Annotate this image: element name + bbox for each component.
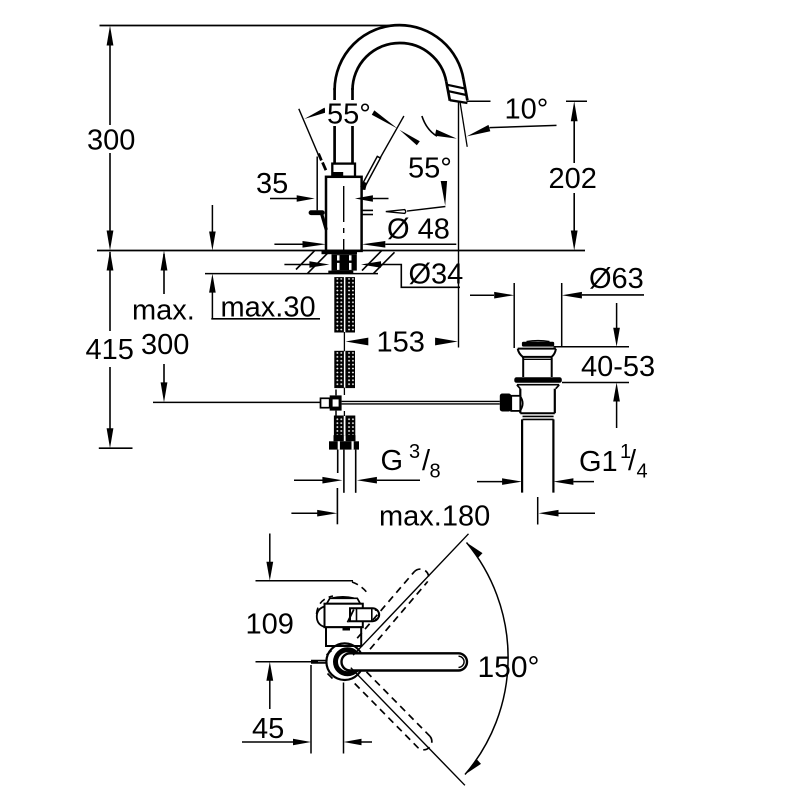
dimension 45 <box>242 665 372 754</box>
svg-text:55°: 55° <box>408 153 452 185</box>
svg-text:Ø34: Ø34 <box>409 259 464 291</box>
spout stream vertical reference line <box>458 102 460 348</box>
body centre line <box>343 186 345 250</box>
drain body <box>519 389 521 414</box>
dimension Ø63 <box>470 263 644 299</box>
svg-text:45: 45 <box>252 713 284 745</box>
threaded shank middle band <box>335 351 355 387</box>
drain flange <box>514 377 562 383</box>
drain tailpipe <box>521 419 523 492</box>
55deg arc arrow left <box>304 108 326 119</box>
svg-text:150°: 150° <box>478 651 540 684</box>
counter underside line <box>205 273 378 275</box>
drain plug dome <box>518 349 556 358</box>
drain Ø63 extension lines <box>513 283 515 348</box>
drain centre line <box>537 497 539 525</box>
svg-text:415: 415 <box>86 334 134 366</box>
svg-text:3: 3 <box>409 441 420 463</box>
svg-text:8: 8 <box>430 461 441 483</box>
pull-rod horizontal line / max300 tick <box>153 401 330 403</box>
supply nut <box>329 441 359 449</box>
dimension 109 <box>246 534 294 710</box>
rod clamp stubs <box>335 390 337 417</box>
drain plug knob <box>527 341 550 342</box>
svg-text:4: 4 <box>637 461 648 483</box>
rod clamp fitting <box>321 398 330 407</box>
handle lever tilted <box>361 156 380 188</box>
top view: cartridge cap chamfer <box>327 598 361 603</box>
threaded shank upper band <box>335 278 355 332</box>
collar dark insert <box>333 172 343 177</box>
top view: spout tip reference line <box>256 580 354 582</box>
dimension 40-53 <box>554 303 656 428</box>
svg-text:300: 300 <box>87 125 135 157</box>
spout outer arc <box>335 25 464 90</box>
top view: dashed spout position upper <box>357 569 428 649</box>
pull rod to drain (double line) <box>342 400 500 402</box>
dimension 300 (height above counter) <box>87 26 135 251</box>
top view: dashed handle position lower <box>355 672 432 750</box>
svg-text:40-53: 40-53 <box>581 351 655 383</box>
outlet end edge <box>450 100 468 103</box>
dimension 10deg <box>467 94 557 137</box>
svg-text:max.: max. <box>132 295 195 327</box>
body collar <box>332 164 355 177</box>
dimension max.300 <box>132 251 195 403</box>
faucet body <box>326 177 362 251</box>
outlet aerator lines <box>447 85 465 89</box>
pop-up rod knob <box>311 210 322 215</box>
body side port lines <box>363 209 374 211</box>
dimension Ø48 <box>274 214 456 248</box>
counter hatch left <box>296 251 315 270</box>
svg-text:10°: 10° <box>505 94 549 126</box>
top view: swivel outer circle <box>326 643 363 680</box>
handle hidden dashes left <box>319 154 322 161</box>
spout riser tube sides <box>333 88 336 165</box>
handle position left line <box>299 109 319 156</box>
mounting nut <box>328 271 353 274</box>
svg-text:Ø 48: Ø 48 <box>387 214 450 246</box>
top view: cartridge cap body <box>325 604 363 628</box>
top view: hidden spout dashed arc <box>317 596 334 614</box>
svg-text:G: G <box>381 445 404 477</box>
leader line to outlet port <box>407 207 445 212</box>
handle position right line <box>362 116 404 190</box>
top reference line <box>100 25 399 27</box>
threaded shank lower band <box>334 416 354 435</box>
dimension 150deg arc <box>465 543 508 775</box>
shank end collar <box>334 435 356 441</box>
rod gap centre line <box>343 388 345 416</box>
tailpiece tube <box>343 450 345 493</box>
svg-text:300: 300 <box>141 329 189 361</box>
drain side port <box>500 394 511 412</box>
dimension G1 1/4 <box>477 441 648 485</box>
svg-text:35: 35 <box>256 168 288 200</box>
top view: diverter cylinder <box>350 608 379 621</box>
dimension max.180 <box>291 501 595 533</box>
drain plug neck <box>522 358 524 377</box>
svg-text:202: 202 <box>549 163 597 195</box>
top view: lever capsule <box>342 653 468 670</box>
dimension max.30 <box>209 205 320 324</box>
tailpiece outer stub <box>337 450 339 473</box>
dimension 202 <box>467 101 597 250</box>
spout outlet tube <box>464 80 468 100</box>
svg-text:Ø63: Ø63 <box>589 263 644 295</box>
svg-text:G1: G1 <box>579 446 618 478</box>
55deg swivel leader arrow down <box>441 181 447 206</box>
svg-text:max.180: max.180 <box>379 501 490 533</box>
label 55deg handle <box>325 100 380 126</box>
hollow slender arrow <box>386 210 406 214</box>
drain bottom band <box>520 412 555 414</box>
shank break centre line <box>343 332 345 351</box>
svg-text:max.30: max.30 <box>221 292 316 324</box>
counter reference line <box>97 250 585 252</box>
max180 left extension line <box>336 488 338 524</box>
spout inner arc <box>353 43 447 90</box>
dimension Ø34 <box>284 259 463 291</box>
counter hatch right <box>362 251 382 271</box>
top view: swivel dark ring <box>336 650 360 674</box>
dimension 153 <box>346 327 458 359</box>
top view: stray dashes <box>327 651 332 656</box>
top view: handle axis reference line <box>256 661 319 663</box>
dimension G3/8 <box>294 441 441 484</box>
shank section block <box>332 254 357 270</box>
dimension 415 (depth below counter) <box>86 251 134 449</box>
55deg arc arrows at crossing <box>372 110 398 128</box>
top view: body below cap <box>326 627 361 646</box>
svg-text:153: 153 <box>377 327 425 359</box>
top view: left bump <box>317 607 325 628</box>
spout swivel 55deg arc <box>422 116 437 136</box>
pop-up rod <box>316 157 318 211</box>
top view: rod stub <box>311 660 326 662</box>
spout axis 10deg tilted line <box>460 103 467 147</box>
svg-text:55°: 55° <box>327 99 371 131</box>
dimension 35 <box>256 168 389 202</box>
escutcheon flange lip <box>322 251 358 254</box>
top view: handle range boundary lines <box>353 534 468 655</box>
svg-text:109: 109 <box>246 609 294 641</box>
